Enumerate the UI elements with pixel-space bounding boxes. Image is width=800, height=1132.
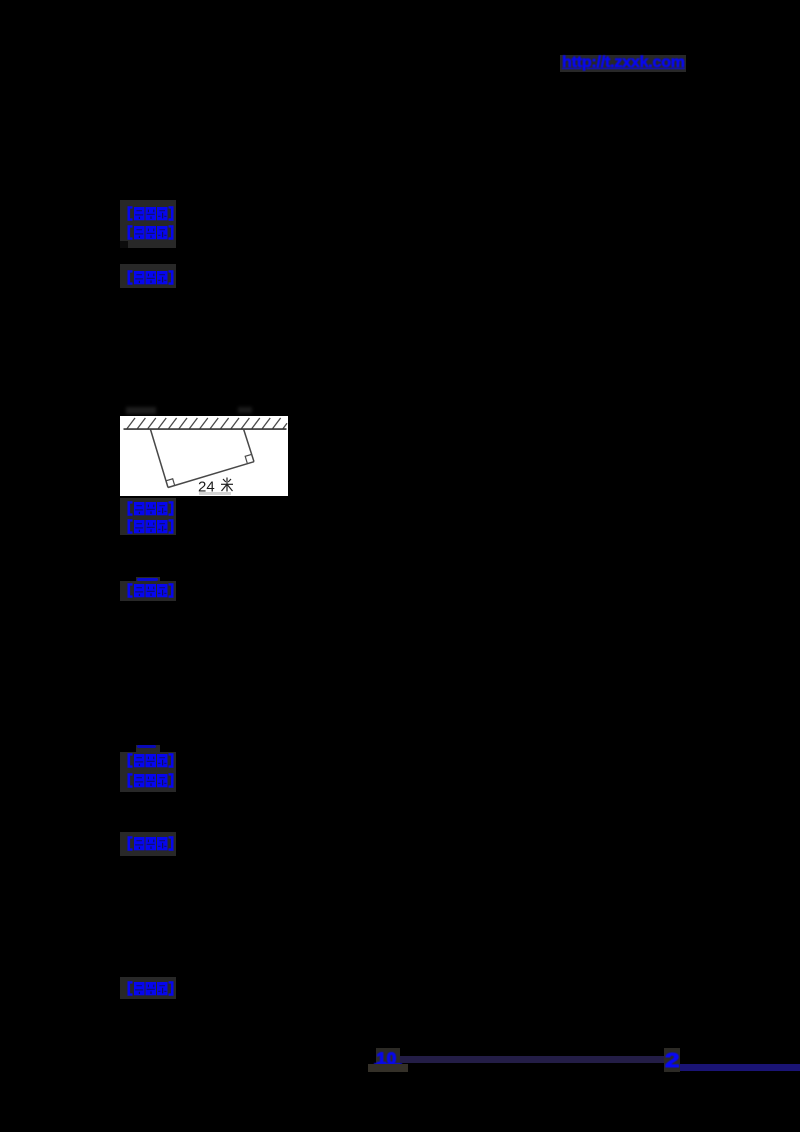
svg-text:24: 24: [198, 478, 215, 495]
